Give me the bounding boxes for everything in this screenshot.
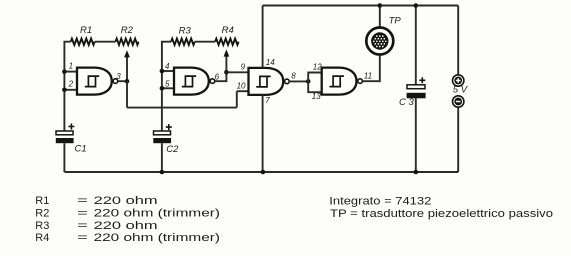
wire: pin 8 output: [289, 80, 308, 82]
svg-text:7: 7: [265, 96, 270, 105]
R4 wiper arrow: [224, 49, 230, 72]
wire: top rail down to 5V plus terminal: [457, 6, 459, 75]
node: C2 ground junction: [160, 170, 165, 175]
svg-text:5: 5: [165, 80, 170, 89]
wire: pin 14 to top rail: [262, 6, 264, 68]
resistor R4 (trimmer): [215, 39, 239, 45]
op-amp U1B gate pins 4,5 -> 6: [174, 68, 215, 95]
capacitor C3: [407, 77, 426, 98]
resistor R2 (trimmer): [116, 39, 139, 45]
node: pin 1 junction: [62, 69, 67, 74]
terminal: 5V plus: [453, 75, 464, 86]
svg-text:C2: C2: [166, 144, 179, 155]
svg-text:14: 14: [266, 58, 275, 67]
svg-text:R4: R4: [35, 232, 49, 244]
wire: pin 1 stub: [64, 71, 77, 73]
svg-text:Integrato = 74132: Integrato = 74132: [329, 195, 431, 207]
node: pin 4 junction: [160, 69, 165, 74]
legend line R4: [35, 232, 220, 244]
wire: pin 2 stub: [64, 89, 77, 91]
svg-text:R4: R4: [222, 25, 234, 36]
svg-text:=: =: [77, 220, 88, 232]
svg-text:R1: R1: [35, 195, 49, 207]
wire: riser to pin 10: [236, 91, 238, 107]
op-amp U1C gate pins 9,10 -> 8: [249, 68, 290, 95]
capacitor C2: [153, 124, 172, 143]
svg-text:220 ohm: 220 ohm: [94, 195, 158, 207]
svg-text:R2: R2: [121, 25, 134, 36]
node: C3 supply junction: [414, 3, 419, 8]
svg-text:R3: R3: [179, 25, 192, 36]
resistor R1: [71, 39, 95, 45]
svg-text:12: 12: [313, 63, 322, 72]
wire: pin 11 output to TP: [363, 55, 380, 81]
svg-text:13: 13: [312, 92, 321, 101]
svg-text:3: 3: [116, 72, 121, 81]
svg-text:8: 8: [291, 72, 296, 81]
svg-text:10: 10: [237, 81, 246, 90]
node: pin 7 ground junction: [261, 170, 266, 175]
wire: C2 bottom to ground rail: [161, 143, 163, 172]
wire: bottom ground rail: [64, 171, 458, 173]
legend line R2: [35, 208, 220, 220]
node: pin 8 / gate4 input junction: [306, 79, 311, 84]
wire: C1 bottom to ground rail: [63, 143, 65, 172]
svg-text:=: =: [77, 208, 88, 220]
svg-text:R2: R2: [35, 208, 49, 220]
node: pin 2 junction: [62, 88, 67, 93]
svg-text:220 ohm (trimmer): 220 ohm (trimmer): [94, 208, 220, 220]
wire: R1 to R2: [95, 41, 116, 43]
legend line R1: [35, 195, 157, 207]
node: TP supply junction: [378, 3, 383, 8]
wire: left input vertical (pins 1,2 / C1 branch): [64, 42, 70, 131]
terminal: 5V minus: [453, 96, 464, 107]
svg-text:R1: R1: [80, 25, 92, 36]
op-amp U1A gate pins 1,2 -> 3: [77, 68, 118, 95]
svg-text:R3: R3: [35, 220, 49, 232]
node: C3 ground junction: [414, 170, 419, 175]
svg-text:2: 2: [68, 80, 74, 89]
wire: top supply rail: [263, 5, 459, 7]
svg-text:=: =: [77, 195, 88, 207]
wire: C3 bottom to ground rail: [415, 98, 417, 172]
wire: C3 top to supply rail: [415, 6, 417, 85]
svg-text:6: 6: [215, 73, 220, 82]
legend line R3: [35, 220, 157, 232]
R2 wiper arrow: [124, 50, 130, 81]
node: pin 5 junction: [160, 86, 165, 91]
wire: gate1 output pin 3: [118, 80, 127, 82]
svg-text:TP = trasduttore piezoelettric: TP = trasduttore piezoelettrico passivo: [330, 208, 553, 220]
svg-text:220 ohm (trimmer): 220 ohm (trimmer): [94, 232, 220, 244]
capacitor C1: [56, 124, 75, 144]
svg-text:11: 11: [364, 71, 372, 80]
wire: gate4 input bracket: [308, 73, 322, 93]
svg-text:220 ohm: 220 ohm: [94, 220, 158, 232]
wire: 5V minus terminal down to ground rail: [457, 107, 459, 172]
node: gate1 output junction: [125, 79, 130, 84]
wire: R3 to R4: [195, 41, 215, 43]
resistor R3: [171, 39, 195, 45]
wire: gate1 output down: [126, 81, 128, 107]
svg-text:C1: C1: [75, 143, 87, 154]
transducer TP: [366, 28, 393, 55]
wire: pin 4 stub: [162, 70, 174, 72]
svg-text:9: 9: [241, 63, 246, 72]
svg-text:1: 1: [69, 62, 73, 71]
wire: pin 9 stub: [226, 71, 248, 73]
wire: routing to pin 10: [127, 107, 237, 109]
node: pin 9 junction: [224, 70, 229, 75]
wire: pin 5 stub: [162, 87, 174, 89]
wire: pin 10 stub: [237, 90, 249, 92]
svg-text:TP: TP: [389, 16, 402, 27]
svg-text:=: =: [77, 232, 88, 244]
wire: TP top to supply rail: [379, 6, 381, 27]
wire: gate2 output pin 6: [215, 72, 226, 81]
wire: gate2 input vertical (pins 4,5 / C2 branch): [162, 42, 171, 131]
svg-text:4: 4: [165, 62, 170, 71]
svg-text:C 3: C 3: [399, 97, 415, 108]
op-amp U1D gate pins 12,13 -> 11: [322, 68, 363, 95]
wire: pin 7 to ground rail: [262, 95, 264, 172]
svg-text:5 V: 5 V: [453, 85, 469, 96]
